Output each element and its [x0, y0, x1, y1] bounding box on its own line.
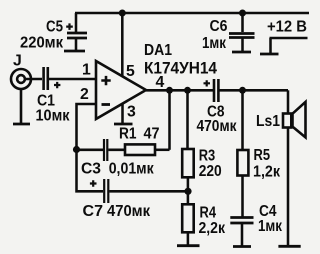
svg-text:2,2к: 2,2к — [199, 220, 226, 237]
svg-text:R5: R5 — [254, 147, 271, 164]
svg-text:1: 1 — [82, 62, 91, 79]
capacitor C8 — [214, 79, 218, 102]
svg-text:R3: R3 — [199, 148, 216, 165]
wire output pin4 — [146, 89, 214, 92]
svg-text:C3: C3 — [81, 160, 101, 177]
op-amp DA1 triangle — [96, 61, 146, 119]
plus sign C1 — [54, 82, 60, 88]
wire top supply rail — [75, 12, 309, 15]
capacitor C1 — [44, 67, 48, 90]
wire C8 to speaker — [219, 89, 288, 92]
ground under J — [13, 123, 30, 126]
op-amp plus input mark — [101, 76, 110, 85]
svg-text:3: 3 — [127, 104, 136, 121]
ground under C4 — [233, 245, 251, 248]
svg-text:DA1: DA1 — [144, 42, 172, 59]
svg-text:J: J — [13, 52, 22, 69]
svg-text:1мк: 1мк — [258, 218, 282, 235]
plus sign C7 — [90, 180, 97, 187]
capacitor C5 — [67, 13, 87, 50]
svg-text:220мк: 220мк — [20, 35, 63, 52]
wire speaker to ground — [287, 128, 290, 246]
svg-text:47: 47 — [144, 126, 160, 143]
resistor R5 — [237, 150, 248, 176]
wire pin3 to ground — [121, 104, 124, 123]
svg-text:+12 В: +12 В — [267, 19, 307, 36]
wire R5 drop — [241, 90, 244, 150]
svg-text:470мк: 470мк — [107, 203, 150, 220]
resistor R4 — [182, 191, 194, 245]
wire pin2 — [77, 104, 97, 150]
plus sign C5 — [66, 23, 73, 30]
wire C3 row — [77, 149, 104, 152]
wire C7 to R3/R4 junction — [109, 190, 188, 193]
node feedback tap — [166, 87, 173, 94]
svg-text:Ls1: Ls1 — [256, 113, 280, 130]
ground under speaker — [278, 245, 300, 248]
svg-text:1мк: 1мк — [202, 35, 226, 52]
op-amp minus input mark — [102, 103, 111, 106]
node top-right (C6 rail junction) — [239, 10, 246, 17]
resistor R1 — [125, 144, 155, 155]
ground under pin3 — [114, 123, 133, 126]
wire R5 to C4 — [241, 176, 244, 217]
svg-text:2: 2 — [80, 86, 89, 103]
ground under C5 — [64, 50, 85, 53]
capacitor C4 — [230, 218, 253, 246]
plus sign C8 — [204, 80, 211, 86]
node R3 tap — [184, 87, 191, 94]
node R5 tap — [239, 87, 246, 94]
capacitor C3 — [104, 139, 107, 161]
wire pin5 to rail — [121, 13, 124, 77]
svg-text:0,01мк: 0,01мк — [109, 160, 154, 177]
wire R1 to feedback drop — [155, 149, 170, 152]
svg-text:1,2к: 1,2к — [253, 164, 280, 181]
wire feedback drop — [168, 90, 171, 150]
svg-text:5: 5 — [126, 63, 135, 80]
resistor R3 — [182, 149, 194, 177]
wire pin2 down to C7 row — [77, 150, 104, 192]
svg-text:R4: R4 — [200, 204, 217, 221]
ground under R4 — [177, 244, 200, 247]
svg-text:470мк: 470мк — [197, 118, 237, 135]
svg-text:220: 220 — [199, 163, 222, 180]
svg-text:C6: C6 — [210, 18, 228, 35]
wire C3 to R1 — [108, 149, 125, 152]
svg-text:C5: C5 — [46, 19, 63, 36]
connector J — [11, 69, 42, 123]
wire R3 to node — [187, 177, 190, 191]
svg-text:R1: R1 — [119, 126, 137, 143]
node pin2/C3 junction — [73, 146, 80, 153]
ground under C6 — [232, 51, 251, 54]
node top-left (pin5 rail junction) — [119, 10, 126, 17]
+12V terminal — [260, 38, 308, 54]
wire C1 to pin1 — [49, 78, 96, 81]
capacitor C6 — [229, 13, 255, 51]
wire R3 drop — [186, 90, 189, 149]
node R3/R4 junction — [184, 188, 191, 195]
svg-text:10мк: 10мк — [36, 108, 70, 125]
wire speaker drop — [287, 90, 290, 113]
svg-text:К174УН14: К174УН14 — [144, 60, 217, 78]
capacitor C7 — [104, 179, 108, 203]
speaker Ls1 — [283, 102, 306, 137]
svg-text:C7: C7 — [83, 203, 104, 220]
